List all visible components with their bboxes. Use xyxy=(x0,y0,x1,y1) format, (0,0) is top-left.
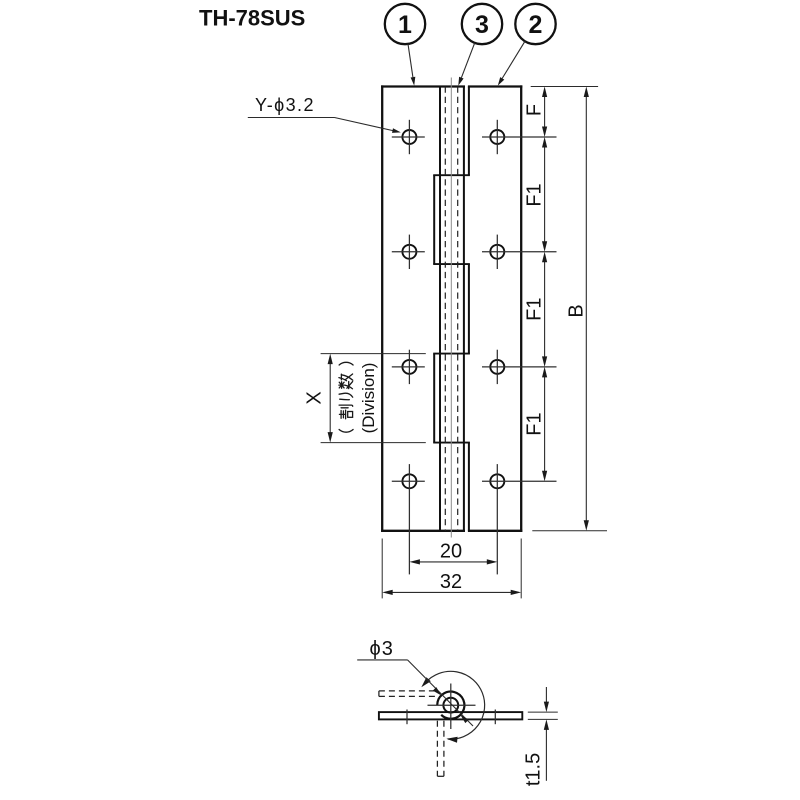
svg-text:F1: F1 xyxy=(524,183,546,206)
label (warisuu) Division japanese xyxy=(339,362,353,432)
left leaf outline xyxy=(381,85,465,532)
svg-text:B: B xyxy=(566,304,588,317)
section: pin crosshair xyxy=(428,684,476,730)
X division extension lines xyxy=(321,354,426,443)
knuckle barrel left edge xyxy=(439,87,441,531)
pin centerline xyxy=(450,78,452,538)
section: hole position ticks xyxy=(407,710,495,725)
knuckle left-side segments (2,4) xyxy=(433,175,435,442)
label phi3 with leader through pin xyxy=(357,638,473,726)
svg-text:t1.5: t1.5 xyxy=(523,753,545,786)
balloon 2 xyxy=(515,4,555,44)
hole centerlines xyxy=(392,120,557,575)
svg-text:32: 32 xyxy=(440,571,462,593)
svg-text:ϕ3: ϕ3 xyxy=(370,638,394,660)
svg-text:F: F xyxy=(524,104,546,116)
dimension 20 xyxy=(409,559,497,564)
svg-text:F1: F1 xyxy=(524,298,546,321)
dimension 32 xyxy=(382,590,521,595)
svg-text:20: 20 xyxy=(440,541,462,563)
X dimension line xyxy=(328,354,333,443)
knuckle barrel right edge xyxy=(463,87,465,531)
svg-text:Y-ϕ3.2: Y-ϕ3.2 xyxy=(255,95,315,115)
svg-text:F1: F1 xyxy=(524,412,546,435)
balloon 1 xyxy=(385,4,425,44)
bottom edge extension line xyxy=(532,530,607,532)
dimension t1.5 xyxy=(528,687,558,781)
svg-text:3: 3 xyxy=(475,11,489,39)
svg-text:(Division): (Division) xyxy=(359,363,378,434)
section: swing arc xyxy=(421,671,484,742)
screw holes Y-phi3.2 xyxy=(402,130,504,488)
svg-text:TH-78SUS: TH-78SUS xyxy=(199,6,305,31)
dimension F1 upper xyxy=(542,137,547,252)
dimension F1 lower xyxy=(542,367,547,481)
extension lines for 20 and 32 xyxy=(382,539,521,599)
dimension B xyxy=(584,87,589,531)
svg-text:2: 2 xyxy=(529,11,543,39)
dimension F1 middle xyxy=(542,252,547,367)
pin hidden lines xyxy=(445,87,457,531)
right leaf outline xyxy=(468,85,522,532)
balloon 3 xyxy=(462,4,502,44)
svg-text:1: 1 xyxy=(398,11,412,39)
section: pin circle phi3 xyxy=(443,698,458,713)
leader from balloon 1 to left leaf xyxy=(408,44,415,86)
dimension F xyxy=(542,87,547,138)
knuckle right-side segments (1,3,5) xyxy=(468,87,470,531)
label Y-phi3.2 with leader xyxy=(248,95,401,133)
top edge extension line xyxy=(531,86,598,88)
svg-text:X: X xyxy=(304,391,326,404)
section: moving leaf closed position (dashed) xyxy=(437,721,444,777)
section: moving leaf open position (dashed) xyxy=(379,691,438,697)
section: fixed leaf plate xyxy=(379,712,522,719)
section: knuckle curl xyxy=(437,692,464,719)
knuckle step joints xyxy=(433,175,470,442)
leader from balloon 3 to pin area xyxy=(458,43,474,86)
leader from balloon 2 to right leaf xyxy=(498,41,525,85)
